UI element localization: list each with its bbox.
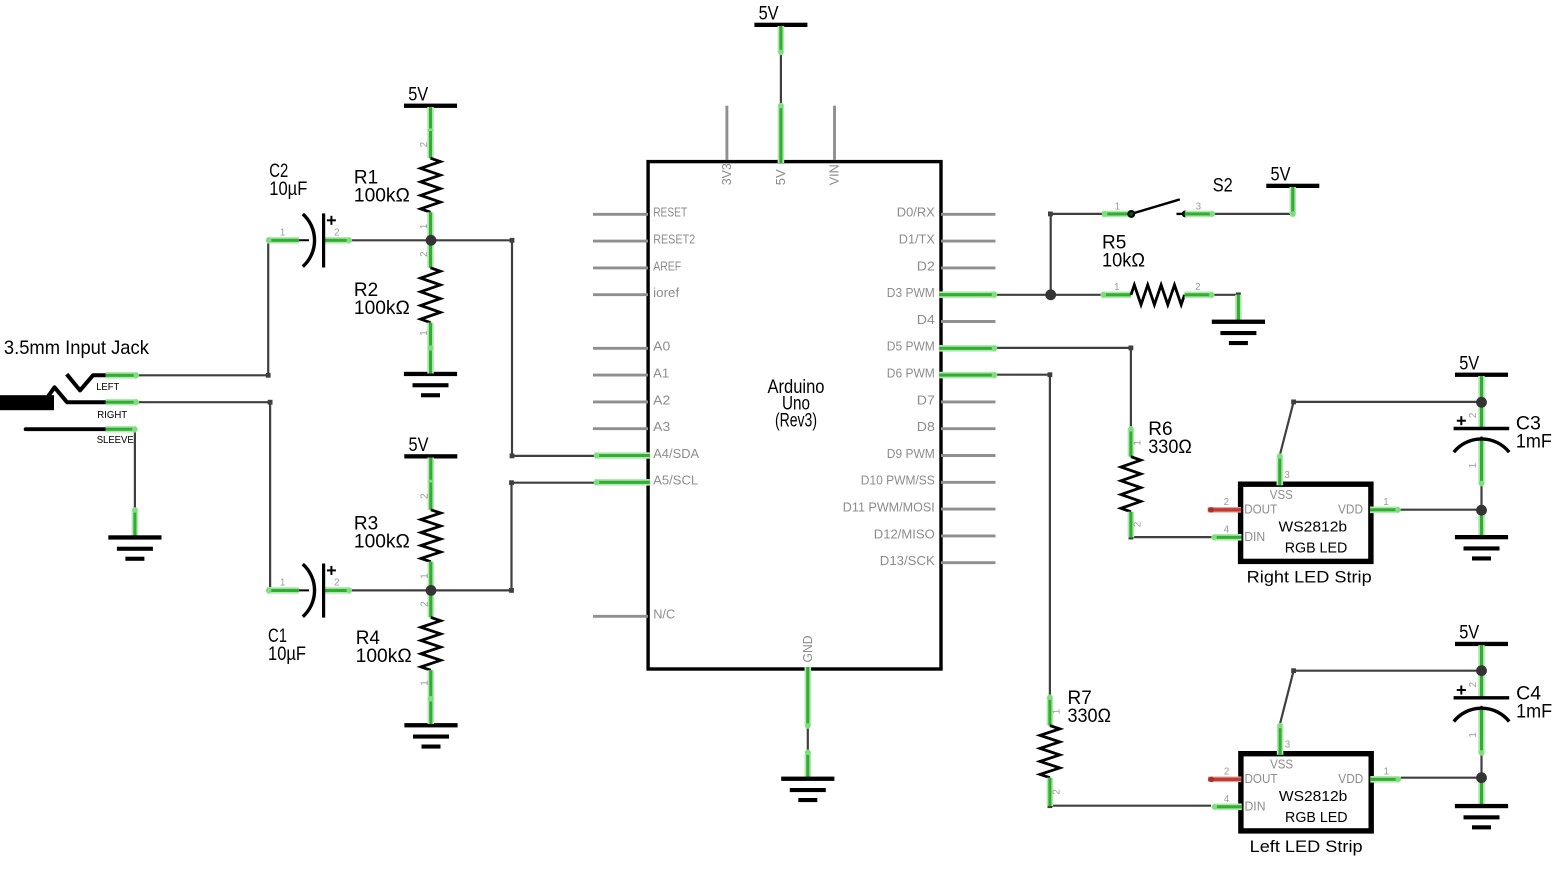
wire left VDD to node G	[1401, 777, 1482, 779]
node A (C2/R1/R2)	[426, 235, 437, 246]
svg-text:1: 1	[1468, 732, 1479, 738]
svg-text:D4: D4	[917, 312, 935, 327]
svg-text:WS2812b: WS2812b	[1279, 788, 1348, 805]
node D (5V/C3/right VSS)	[1476, 397, 1487, 408]
svg-text:D2: D2	[917, 258, 935, 273]
wire bend node	[509, 588, 514, 593]
node E (C3/right VDD/gnd)	[1476, 505, 1487, 516]
svg-text:2: 2	[334, 228, 339, 239]
ground (C3)	[1478, 510, 1485, 537]
svg-text:A1: A1	[653, 366, 669, 381]
node B (C1/R3/R4)	[426, 585, 437, 596]
resistor R7 330	[1040, 688, 1111, 806]
power +5V (R1)	[404, 84, 457, 108]
wire bend node	[268, 400, 273, 405]
ground (jack sleeve)	[132, 510, 139, 538]
svg-text:VIN: VIN	[827, 164, 842, 185]
IC U3 WS2812b Left LED Strip	[1208, 723, 1401, 856]
resistor R3 100k	[354, 483, 441, 591]
capacitor C3 1mF	[1454, 402, 1552, 486]
svg-text:10µF: 10µF	[269, 179, 307, 200]
wire bend node	[1048, 372, 1053, 377]
wire bend node	[1291, 668, 1296, 673]
svg-text:2: 2	[419, 601, 430, 607]
svg-text:100kΩ: 100kΩ	[356, 646, 412, 667]
wire bend node	[1129, 535, 1134, 540]
svg-text:5V: 5V	[1459, 353, 1479, 374]
wire node B to A5/SCL	[431, 483, 595, 591]
connector J1 3.5mm Input Jack	[0, 337, 149, 446]
wire jack LEFT to C2 pin 1	[138, 240, 269, 375]
svg-text:1mF: 1mF	[1516, 431, 1552, 452]
svg-text:5V: 5V	[773, 169, 788, 185]
svg-text:A3: A3	[653, 419, 670, 434]
svg-text:VDD: VDD	[1338, 501, 1363, 516]
svg-text:4: 4	[1224, 794, 1230, 805]
wire R7 pin 2 to left DIN	[1050, 778, 1211, 806]
wire C1 pin 2 to node B	[352, 589, 432, 591]
svg-text:VDD: VDD	[1338, 771, 1363, 786]
svg-text:AREF: AREF	[653, 258, 681, 273]
svg-text:4: 4	[1224, 525, 1230, 536]
wire D6 PWM to R7 pin 1	[996, 375, 1050, 698]
svg-text:(Rev3): (Rev3)	[775, 410, 817, 431]
svg-text:D3 PWM: D3 PWM	[887, 285, 935, 300]
svg-text:D7: D7	[917, 392, 935, 407]
svg-text:1: 1	[1052, 709, 1063, 715]
svg-text:D12/MISO: D12/MISO	[874, 526, 935, 541]
resistor R4 100k	[356, 590, 441, 724]
svg-text:Right LED Strip: Right LED Strip	[1247, 569, 1372, 587]
svg-text:S2: S2	[1213, 176, 1233, 197]
wire jack RIGHT to C1 pin 1	[138, 402, 271, 590]
svg-text:1mF: 1mF	[1516, 702, 1552, 723]
svg-text:1: 1	[1115, 201, 1120, 212]
svg-text:100kΩ: 100kΩ	[354, 532, 410, 553]
wire node C to R5 pin 1	[1051, 294, 1104, 296]
wire 5V to Arduino 5V pin	[780, 52, 782, 105]
svg-text:D10 PWM/SS: D10 PWM/SS	[861, 473, 935, 488]
svg-text:DOUT: DOUT	[1244, 501, 1277, 516]
svg-text:1: 1	[1133, 440, 1144, 446]
svg-text:1: 1	[1114, 282, 1119, 293]
pin dot R2-gnd	[428, 345, 434, 351]
ground (C4)	[1478, 778, 1485, 806]
svg-text:3: 3	[1196, 201, 1202, 212]
svg-text:3: 3	[1285, 739, 1291, 750]
svg-text:1: 1	[280, 228, 285, 239]
wire left VSS to 5V node F	[1280, 671, 1482, 724]
svg-text:5V: 5V	[759, 4, 779, 25]
wire bend node	[1129, 346, 1134, 351]
svg-text:D13/SCK: D13/SCK	[880, 553, 935, 568]
wire bend node	[1291, 400, 1296, 405]
svg-text:A0: A0	[653, 339, 670, 354]
svg-text:DIN: DIN	[1244, 529, 1265, 544]
capacitor C4 1mF	[1454, 672, 1553, 756]
svg-text:10µF: 10µF	[268, 644, 306, 665]
svg-text:VSS: VSS	[1270, 756, 1293, 771]
svg-text:LEFT: LEFT	[96, 382, 119, 393]
resistor R6 330	[1121, 419, 1192, 537]
svg-text:D5 PWM: D5 PWM	[887, 339, 935, 354]
resistor R1 100k	[354, 131, 441, 240]
power +5V (R3)	[404, 435, 457, 459]
power +5V (C3)	[1455, 353, 1508, 377]
svg-text:GND: GND	[800, 636, 815, 663]
svg-text:100kΩ: 100kΩ	[354, 298, 410, 319]
svg-text:1: 1	[1383, 497, 1388, 508]
op-amp U1 Arduino Uno (Rev3)	[593, 103, 997, 729]
svg-text:RGB LED: RGB LED	[1285, 540, 1348, 557]
svg-text:2: 2	[1224, 497, 1229, 508]
svg-text:1: 1	[1468, 463, 1479, 469]
ground (R4)	[404, 723, 457, 749]
svg-text:5V: 5V	[408, 84, 428, 105]
svg-text:D1/TX: D1/TX	[899, 232, 935, 247]
capacitor C2 10uF	[266, 161, 352, 267]
power +5V (S2)	[1266, 165, 1319, 189]
svg-text:Left LED Strip: Left LED Strip	[1250, 838, 1363, 856]
wire D5 PWM to R6 pin 1	[996, 348, 1131, 429]
wire C3 pin 1 to node E	[1480, 483, 1482, 510]
svg-text:D8: D8	[917, 419, 935, 434]
wire node C to S2 pin 1	[1051, 214, 1102, 295]
svg-text:DIN: DIN	[1245, 799, 1266, 814]
resistor R5 10k	[1100, 232, 1214, 304]
svg-text:330Ω: 330Ω	[1068, 706, 1112, 727]
svg-text:1: 1	[419, 330, 430, 336]
svg-text:3.5mm Input Jack: 3.5mm Input Jack	[4, 337, 149, 359]
svg-text:2: 2	[334, 578, 339, 589]
svg-text:2: 2	[419, 493, 430, 499]
svg-text:5V: 5V	[409, 435, 429, 456]
svg-text:1: 1	[419, 573, 430, 579]
wire right VSS to 5V node D	[1280, 402, 1482, 456]
svg-text:330Ω: 330Ω	[1148, 437, 1192, 458]
svg-text:3: 3	[1284, 470, 1290, 481]
capacitor C1 10uF	[266, 564, 352, 666]
wire S2 pin 3 to 5V	[1213, 213, 1293, 215]
wire bend node	[510, 454, 515, 459]
svg-text:2: 2	[1195, 282, 1200, 293]
switch S2	[1102, 176, 1233, 217]
node F (5V/C4/left VSS)	[1476, 665, 1487, 676]
wire jack SLEEVE to ground	[134, 429, 136, 510]
wire node A to A4/SDA	[431, 240, 595, 456]
svg-text:RESET: RESET	[653, 205, 687, 220]
svg-text:D9 PWM: D9 PWM	[887, 446, 935, 461]
svg-text:1: 1	[1384, 767, 1389, 778]
svg-text:A5/SCL: A5/SCL	[653, 473, 698, 488]
svg-text:N/C: N/C	[653, 607, 675, 622]
wire bend node	[509, 480, 514, 485]
svg-text:A2: A2	[653, 392, 670, 407]
svg-text:RIGHT: RIGHT	[97, 410, 127, 421]
svg-text:SLEEVE: SLEEVE	[97, 435, 134, 446]
wire C4 pin 1 to node G	[1480, 754, 1482, 778]
svg-text:WS2812b: WS2812b	[1279, 519, 1348, 536]
wire R5 pin 2 to ground	[1213, 294, 1238, 296]
svg-text:1: 1	[280, 578, 285, 589]
svg-text:10kΩ: 10kΩ	[1102, 250, 1145, 271]
svg-text:RESET2: RESET2	[653, 232, 695, 247]
wire bend node	[1236, 292, 1241, 297]
wire C2 pin 2 to node A	[350, 239, 432, 241]
node G (C4/left VDD/gnd)	[1476, 772, 1487, 783]
svg-text:2: 2	[419, 142, 430, 148]
svg-text:RGB LED: RGB LED	[1285, 809, 1348, 826]
wire right VDD to node E	[1400, 509, 1482, 511]
svg-text:ioref: ioref	[653, 285, 679, 300]
ground (R2)	[404, 372, 457, 398]
svg-text:D0/RX: D0/RX	[897, 205, 935, 220]
svg-text:1: 1	[419, 224, 430, 230]
svg-text:2: 2	[1052, 789, 1063, 795]
svg-text:3V3: 3V3	[719, 163, 734, 185]
wire Arduino GND to ground	[807, 726, 809, 752]
svg-text:5V: 5V	[1459, 623, 1479, 644]
wire R6 pin 2 to right DIN	[1131, 512, 1214, 537]
svg-text:2: 2	[1133, 522, 1144, 528]
pin dot R4-gnd	[428, 696, 434, 702]
wire bend node	[266, 373, 271, 378]
IC U2 WS2812b Right LED Strip	[1208, 453, 1401, 586]
power +5V (Arduino)	[754, 4, 807, 28]
svg-text:2: 2	[1468, 682, 1479, 688]
wire bend node	[1048, 803, 1053, 808]
svg-text:2: 2	[419, 251, 430, 257]
svg-text:DOUT: DOUT	[1245, 771, 1278, 786]
wire D3 PWM to node C	[996, 294, 1050, 296]
power +5V (C4)	[1455, 623, 1508, 647]
ground (R5)	[1235, 295, 1242, 322]
svg-text:A4/SDA: A4/SDA	[653, 446, 699, 461]
wire bend node	[510, 238, 515, 243]
ground (Arduino GND)	[804, 752, 811, 779]
svg-text:2: 2	[1224, 767, 1229, 778]
node C (D3/S2/R5)	[1045, 289, 1056, 300]
svg-text:D11 PWM/MOSI: D11 PWM/MOSI	[843, 500, 935, 515]
svg-text:100kΩ: 100kΩ	[354, 186, 410, 207]
svg-text:1: 1	[419, 680, 430, 686]
resistor R2 100k	[354, 240, 441, 373]
svg-text:D6 PWM: D6 PWM	[887, 366, 935, 381]
svg-text:VSS: VSS	[1270, 487, 1293, 502]
svg-text:5V: 5V	[1271, 165, 1291, 186]
svg-text:2: 2	[1468, 413, 1479, 419]
wire bend node	[1048, 212, 1053, 217]
